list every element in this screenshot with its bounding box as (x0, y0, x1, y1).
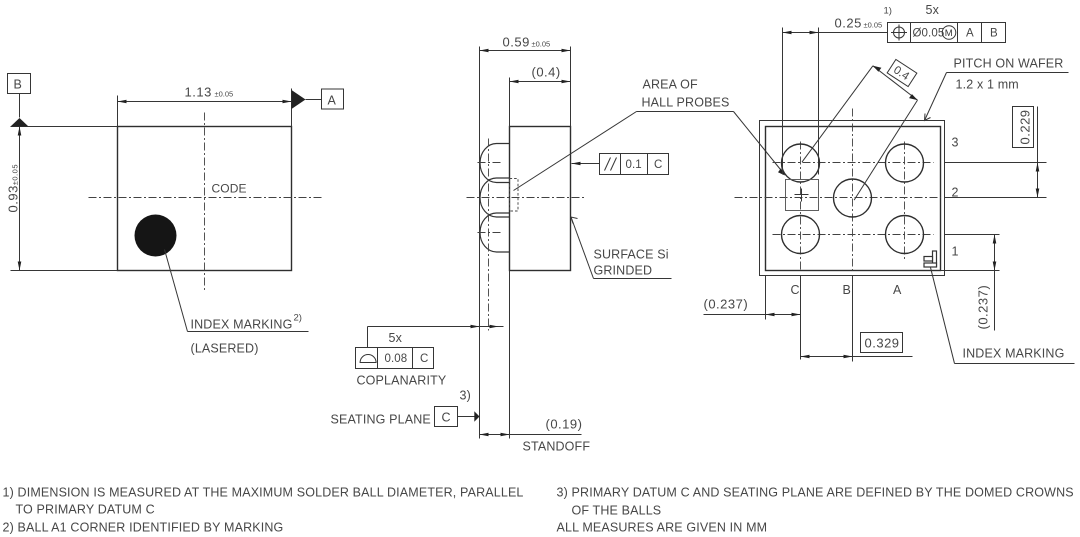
svg-text:±0.05: ±0.05 (864, 21, 883, 30)
svg-text:C: C (442, 411, 451, 425)
svg-text:A: A (893, 283, 902, 297)
svg-text:TO PRIMARY DATUM C: TO PRIMARY DATUM C (16, 503, 155, 517)
svg-text:B: B (990, 28, 998, 40)
svg-text:(0.4): (0.4) (532, 65, 561, 80)
svg-text:0.59: 0.59 (503, 35, 530, 50)
svg-text:C: C (654, 159, 662, 171)
svg-text:1.2 x 1 mm: 1.2 x 1 mm (956, 78, 1019, 92)
svg-text:B: B (843, 283, 852, 297)
svg-text:A: A (328, 94, 337, 108)
svg-text:1.13: 1.13 (185, 85, 212, 100)
svg-text:0.329: 0.329 (865, 336, 900, 351)
svg-text:C: C (420, 353, 428, 365)
svg-text:3) PRIMARY DATUM C AND SEATING: 3) PRIMARY DATUM C AND SEATING PLANE ARE… (557, 486, 1074, 500)
svg-text:OF THE BALLS: OF THE BALLS (572, 504, 662, 518)
svg-text:SEATING PLANE: SEATING PLANE (331, 413, 431, 427)
svg-text:B: B (14, 78, 23, 92)
svg-text:5x: 5x (389, 331, 403, 345)
svg-text:AREA OF: AREA OF (643, 78, 698, 92)
svg-text:0.1: 0.1 (626, 159, 642, 171)
svg-text:(0.19): (0.19) (546, 417, 583, 432)
svg-text:STANDOFF: STANDOFF (523, 440, 591, 454)
svg-text:CODE: CODE (212, 182, 247, 196)
svg-text:SURFACE Si: SURFACE Si (594, 248, 669, 262)
svg-text:±0.05: ±0.05 (215, 90, 234, 99)
svg-text:5x: 5x (926, 3, 940, 17)
svg-text:±0.05: ±0.05 (532, 40, 551, 49)
svg-text:PITCH ON WAFER: PITCH ON WAFER (954, 57, 1064, 71)
svg-text:0.08: 0.08 (385, 353, 408, 365)
svg-text:GRINDED: GRINDED (594, 264, 653, 278)
svg-text:3: 3 (952, 136, 959, 150)
svg-text:1: 1 (952, 245, 959, 259)
svg-text:3): 3) (460, 389, 471, 403)
svg-text:C: C (791, 283, 800, 297)
svg-text:INDEX MARKING: INDEX MARKING (191, 318, 293, 332)
svg-text:0.25: 0.25 (835, 16, 862, 31)
svg-text:2): 2) (294, 313, 302, 324)
svg-text:A: A (966, 28, 974, 40)
svg-text:1) DIMENSION IS MEASURED AT TH: 1) DIMENSION IS MEASURED AT THE MAXIMUM … (3, 486, 524, 500)
svg-text:(LASERED): (LASERED) (191, 342, 259, 356)
svg-text:ALL MEASURES ARE GIVEN IN MM: ALL MEASURES ARE GIVEN IN MM (557, 521, 768, 535)
svg-text:2) BALL A1 CORNER IDENTIFIED B: 2) BALL A1 CORNER IDENTIFIED BY MARKING (3, 521, 284, 535)
svg-text:COPLANARITY: COPLANARITY (357, 374, 447, 388)
svg-text:(0.237): (0.237) (704, 297, 749, 312)
svg-text:2: 2 (952, 186, 959, 200)
svg-text:INDEX MARKING: INDEX MARKING (963, 347, 1065, 361)
svg-text:Ø0.05: Ø0.05 (913, 28, 945, 40)
svg-text:0.229: 0.229 (1018, 109, 1033, 144)
svg-text:HALL PROBES: HALL PROBES (642, 96, 730, 110)
svg-text:M: M (945, 28, 953, 39)
svg-text:(0.237): (0.237) (976, 285, 991, 330)
svg-text:1): 1) (884, 6, 892, 17)
